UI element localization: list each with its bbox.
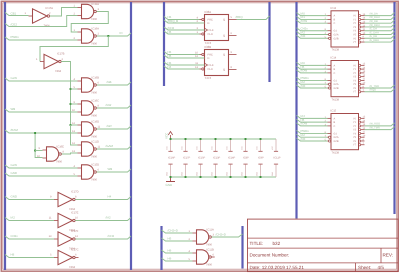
bus B (x=131 vertical)	[130, 2, 132, 270]
wire junction to IC16D pin 1	[71, 124, 78, 126]
svg-text:WB: WB	[108, 167, 113, 171]
bus H (bottom mid-right vertical)	[241, 226, 243, 269]
svg-text:REV:: REV:	[383, 253, 394, 258]
svg-text:/W_DBH: /W_DBH	[370, 24, 380, 27]
nand IC16D	[82, 122, 94, 136]
wire IA2 from bus E to IC15	[297, 134, 328, 137]
svg-text:/GAM: /GAM	[106, 144, 114, 148]
svg-text:/CH2+D: /CH2+D	[168, 228, 178, 232]
capacitor IC13P	[215, 139, 217, 151]
svg-text:IC8B: IC8B	[205, 45, 212, 49]
wire feedback into IC17B input	[39, 61, 41, 63]
inverter IC17F	[58, 232, 73, 246]
wire IC17F output to bus B	[75, 236, 131, 239]
svg-text:IC16A: IC16A	[92, 27, 100, 30]
svg-text:IC16E: IC16E	[57, 145, 65, 148]
svg-text:IC9P: IC9P	[258, 156, 264, 159]
svg-text:CLK: CLK	[209, 64, 214, 67]
svg-text:H5: H5	[168, 54, 172, 58]
wire IC17A output to IC15A pin 1	[50, 8, 78, 17]
wire IC13 Y7 to bus F	[365, 39, 395, 42]
wire IC13 Y1 to bus F	[365, 16, 395, 19]
wire junction to IC16E pin 9	[35, 150, 42, 152]
svg-text:D: D	[208, 57, 210, 60]
svg-text:C: C	[334, 72, 336, 75]
svg-text:/CE: /CE	[301, 84, 306, 88]
svg-text:Q: Q	[223, 54, 225, 57]
svg-text:7400: 7400	[91, 178, 97, 181]
wire H9 from bus G to IC11B pin 1	[162, 250, 193, 253]
svg-text:IC17E: IC17E	[71, 212, 79, 215]
nand IC11B	[197, 250, 209, 264]
wire H4 from bus C to IC8B CLR	[164, 66, 200, 69]
svg-text:4/5: 4/5	[378, 265, 385, 270]
svg-text:IC15A: IC15A	[92, 3, 100, 6]
wire CH2x from bus A to IC17F	[5, 236, 54, 239]
svg-text:IC8P: IC8P	[243, 156, 249, 159]
svg-text:IC16B: IC16B	[92, 76, 100, 79]
svg-text:7400: 7400	[91, 18, 97, 21]
flip-flop IC8A (7474)	[205, 15, 229, 41]
svg-text:GND: GND	[11, 194, 17, 198]
svg-text:IC11D: IC11D	[92, 140, 99, 143]
wire /IOW from bus E to IC13	[297, 20, 328, 23]
svg-text:GND: GND	[211, 171, 214, 176]
wire IC8A Q to bus D	[237, 16, 270, 20]
svg-text:GND: GND	[181, 171, 184, 176]
wire IC13 Y5 to bus F	[365, 32, 395, 35]
wire GND from bus A to IC15D pin 2	[5, 173, 78, 176]
svg-text:7400: 7400	[91, 114, 97, 117]
svg-text:IC16C: IC16C	[92, 99, 100, 102]
svg-text:IC13P: IC13P	[213, 156, 220, 159]
svg-text:D: D	[208, 22, 210, 25]
svg-text:IC17C: IC17C	[71, 249, 79, 252]
svg-text:H9: H9	[168, 248, 172, 252]
svg-text:G2B: G2B	[334, 140, 339, 143]
svg-text:/CE: /CE	[301, 137, 306, 141]
svg-text:/GR: /GR	[107, 124, 112, 128]
inverter IC17A	[33, 9, 48, 23]
svg-text:7400: 7400	[91, 91, 97, 94]
capacitor IC15P	[200, 139, 202, 151]
wire CB1 from bus A to IC17A input	[5, 13, 29, 16]
wire IC16E output to IC11D pin 13	[62, 153, 78, 154]
svg-text:CH2x: CH2x	[11, 234, 19, 238]
bus G (bottom mid-left vertical)	[160, 226, 162, 270]
VCC symbol	[168, 132, 172, 140]
wire IC11A output to bus H	[212, 234, 243, 237]
svg-text:74138: 74138	[332, 151, 340, 154]
wire IA0 from bus E to IC14	[297, 62, 328, 65]
inverter IC17D	[58, 192, 73, 206]
wire IC15 Y3 to bus F	[365, 127, 395, 130]
svg-text:H9: H9	[168, 256, 172, 260]
svg-text:G2B: G2B	[334, 87, 339, 90]
flip-flop IC8B (7474)	[205, 50, 229, 76]
svg-text:/CH2: /CH2	[108, 234, 115, 238]
svg-text:G2A: G2A	[334, 83, 339, 86]
svg-text:G2A: G2A	[334, 34, 339, 37]
bus A (left vertical)	[4, 2, 6, 270]
svg-text:CLR: CLR	[208, 68, 213, 71]
svg-text:74138: 74138	[332, 98, 340, 101]
svg-text:C: C	[334, 125, 336, 128]
wire IC15D output to bus B	[97, 169, 131, 172]
decoder IC13 (74138)	[331, 11, 359, 47]
wire /RAM from bus A to IC16D pin 2	[5, 130, 78, 133]
svg-text:/E_DB: /E_DB	[370, 35, 378, 38]
svg-text:Q: Q	[223, 19, 225, 22]
svg-text:TITLE:: TITLE:	[250, 241, 264, 246]
svg-text:C: C	[334, 22, 336, 25]
svg-text:IC13: IC13	[331, 7, 337, 10]
ground symbol GND	[166, 177, 175, 182]
svg-text:GND: GND	[196, 171, 199, 176]
svg-text:IC16D: IC16D	[92, 120, 100, 123]
bus E (x=296.5 vertical)	[295, 2, 297, 219]
svg-text:/IA2: /IA2	[106, 215, 112, 219]
wire H6 from bus C to IC8B PRE	[164, 52, 200, 55]
svg-text:WB: WB	[11, 107, 16, 111]
wire CH2x from bus E to IC13	[297, 28, 328, 31]
wire IC17B output down the NAND column	[61, 62, 70, 126]
wire H8 from bus A to IC17C	[5, 255, 54, 258]
svg-text:/RQB: /RQB	[370, 89, 377, 92]
inverter IC17B	[44, 54, 59, 68]
junction IC17B line to IC16D pin 1	[70, 124, 72, 126]
svg-text:GND: GND	[256, 171, 259, 176]
nand IC15D	[82, 165, 94, 179]
wire IC14 Y6 to bus F	[365, 85, 395, 88]
wire IC16A output to bus B	[97, 33, 131, 36]
svg-text:GND: GND	[166, 183, 174, 187]
wire PWDn from bus E to IC14	[297, 77, 328, 80]
svg-text:/RAM: /RAM	[11, 128, 19, 132]
svg-text:IA2: IA2	[11, 215, 16, 219]
wire /IOW from bus E to IC14	[297, 70, 328, 73]
svg-text:IC8A: IC8A	[205, 10, 212, 14]
wire IA2 from bus A to IC17E	[5, 218, 54, 221]
svg-text:/E_DA: /E_DA	[370, 28, 378, 31]
capacitor IC8P	[245, 139, 247, 151]
svg-text:/CE2: /CE2	[11, 22, 18, 26]
wire IC14 Y7 to bus F	[365, 89, 395, 92]
svg-text:G2A: G2A	[334, 136, 339, 139]
svg-text:7400: 7400	[91, 42, 97, 45]
svg-text:/CH2+D: /CH2+D	[216, 232, 226, 236]
svg-text:/W_ROG: /W_ROG	[370, 123, 381, 126]
wire H5 from bus G to IC11A pin 2	[162, 238, 193, 241]
capacitor IC17P	[185, 139, 187, 151]
nand IC11A	[197, 230, 209, 244]
svg-text:7404: 7404	[55, 70, 61, 73]
svg-text:/GB: /GB	[107, 80, 112, 84]
svg-text:IC15D: IC15D	[92, 163, 100, 166]
capacitor IC14P	[230, 139, 232, 151]
wire IC15A output loop to IC16A pin 1	[71, 12, 108, 33]
svg-text:/IOW: /IOW	[301, 19, 308, 23]
svg-text:/IOW: /IOW	[301, 69, 308, 73]
svg-text:IC11A: IC11A	[207, 228, 214, 231]
svg-text:/W_DAH: /W_DAH	[370, 16, 380, 19]
svg-text:Date: 12.03.2019 17.55.21: Date: 12.03.2019 17.55.21	[250, 265, 305, 270]
wire /CE from bus E to IC14	[297, 85, 328, 88]
capacitor IC16P	[170, 139, 172, 151]
svg-text:Document Number:: Document Number:	[250, 253, 290, 258]
svg-text:GND: GND	[11, 171, 17, 175]
svg-text:/CE: /CE	[301, 34, 306, 38]
capacitor IC9P	[260, 139, 262, 151]
svg-text:GND: GND	[241, 171, 244, 176]
wire H6b from bus C to IC8B CLK	[164, 62, 205, 65]
wire IC16A output branch to IC17B input	[40, 36, 108, 62]
svg-text:/IOW: /IOW	[301, 122, 308, 126]
svg-text:H5: H5	[168, 236, 172, 240]
capacitor IC11P	[275, 139, 277, 151]
decoder IC15 (74138)	[331, 114, 359, 150]
svg-text:/E_DAH: /E_DAH	[370, 31, 379, 34]
nand IC16A	[82, 29, 94, 43]
svg-text:IC17B: IC17B	[57, 53, 65, 56]
svg-text:/E_DBH: /E_DBH	[370, 39, 379, 42]
wire WB from bus A to IC16C pin 2	[5, 109, 78, 112]
decoder IC14 (74138)	[331, 61, 359, 97]
wire /REQ_B from bus C to IC8A D	[164, 20, 205, 23]
svg-text:GND: GND	[166, 171, 169, 176]
svg-text:7400: 7400	[206, 263, 212, 266]
svg-text:7400: 7400	[91, 155, 97, 158]
wire /CE from bus E to IC13	[297, 35, 328, 38]
svg-text:b32: b32	[273, 241, 281, 246]
wire IC15 Y2 to bus F	[365, 123, 395, 126]
svg-text:IC11P: IC11P	[274, 156, 281, 159]
svg-text:/W_TMR: /W_TMR	[370, 126, 380, 129]
svg-text:7400: 7400	[206, 243, 212, 246]
wire IC16C output to bus B	[97, 105, 131, 108]
wire H6 from bus C to IC8A PRE	[164, 17, 200, 20]
svg-text:74138: 74138	[332, 49, 340, 52]
wire /CE2 from bus A to IC15A pin 2	[5, 16, 78, 27]
svg-text:7404: 7404	[69, 266, 75, 269]
wire IC16D output to bus B	[97, 126, 131, 129]
wire IA1 from bus E to IC13	[297, 16, 328, 19]
wire to IC17B pin	[39, 61, 41, 63]
wire /CH2 from bus C to IC8A CLK	[164, 27, 205, 30]
svg-text:H5: H5	[168, 30, 172, 34]
wire H5 from bus C to IC8B D	[164, 55, 205, 58]
wire IA2 from bus E to IC14	[297, 81, 328, 84]
bus D (x=269.5 vertical)	[268, 2, 270, 82]
wire /CE from bus E to IC15	[297, 138, 328, 141]
svg-text:Q: Q	[223, 35, 225, 38]
wire H5 from bus E to IC14	[297, 66, 328, 69]
wire IC17D output to bus B	[75, 197, 131, 200]
wire IC13 Y2 to bus F	[365, 20, 395, 23]
svg-text:/W_DA: /W_DA	[370, 12, 378, 15]
svg-text:/REQ_B: /REQ_B	[168, 19, 179, 23]
wire IA2 from bus E to IC13	[297, 32, 328, 35]
svg-text:/GW: /GW	[106, 103, 112, 107]
junction on IC16A output	[107, 35, 109, 37]
svg-text:IC11B: IC11B	[207, 248, 214, 251]
svg-text:GND: GND	[271, 171, 274, 176]
nand IC16B	[82, 78, 94, 92]
wire /IOW from bus E to IC15	[297, 123, 328, 126]
svg-text:H8: H8	[11, 252, 15, 256]
svg-text:CLR: CLR	[208, 33, 213, 36]
wire IC13 Y4 to bus F	[365, 28, 395, 31]
svg-text:H4: H4	[108, 194, 112, 198]
inverter IC17C	[58, 250, 73, 264]
svg-text:7400: 7400	[56, 160, 62, 163]
wire IC13 Y6 to bus F	[365, 35, 395, 38]
svg-text:CB1: CB1	[11, 11, 17, 15]
svg-text:/REQ: /REQ	[236, 15, 244, 19]
svg-text:PWDn: PWDn	[11, 35, 20, 39]
wire IC17B line to IC11D pin 12	[71, 125, 78, 145]
wire IC17E output to bus B	[75, 218, 131, 221]
wire GND rail	[171, 176, 277, 178]
wire H9 from bus G to IC11B pin 2	[162, 258, 193, 261]
wire IC13 Y3 to bus F	[365, 24, 395, 27]
junction IC17B line to IC16B pin 2	[70, 88, 72, 90]
svg-text:IC17P: IC17P	[183, 156, 190, 159]
wire PWDn from bus A to IC16A pin 2	[5, 37, 78, 40]
svg-text:GxW: GxW	[11, 76, 18, 80]
junction on /RAM wire	[34, 132, 36, 134]
nand IC15A	[82, 4, 94, 18]
svg-text:G2B: G2B	[334, 37, 339, 40]
wire VCC rail	[171, 138, 277, 140]
svg-text:IC17D: IC17D	[71, 191, 79, 194]
svg-text:VCC: VCC	[165, 132, 169, 139]
wire junction to IC16C pin 1	[71, 103, 78, 105]
wire IC16B output to bus B	[97, 82, 131, 85]
junction at IC16E pin 9	[34, 150, 36, 152]
wire junction to IC16B pin 2	[71, 88, 78, 90]
svg-text:7474: 7474	[205, 76, 212, 80]
svg-text:/W_DB: /W_DB	[370, 20, 378, 23]
wire /CH2+D from bus G to IC11A pin 1	[162, 230, 193, 233]
svg-text:H4: H4	[168, 65, 172, 69]
bus F (right vertical)	[393, 2, 395, 214]
svg-text:7400: 7400	[91, 135, 97, 138]
title block	[248, 219, 399, 272]
svg-text:IC16P: IC16P	[168, 156, 175, 159]
wire H5 from bus C to IC8A CLR	[164, 31, 200, 34]
svg-text:IC15P: IC15P	[198, 156, 205, 159]
wire IC11D output to bus B	[97, 146, 131, 149]
svg-text:GxW: GxW	[11, 163, 18, 167]
wire GxW from bus A to IC15D pin 1	[5, 165, 78, 168]
junction IC17B line to IC16C pin 1	[70, 103, 72, 105]
wire segment into IC17B	[39, 61, 41, 63]
svg-text:Q: Q	[223, 69, 225, 72]
svg-text:Sheet:: Sheet:	[358, 265, 371, 270]
svg-text:IC17A: IC17A	[46, 7, 54, 10]
nand IC16E	[47, 147, 59, 161]
inverter IC17E	[58, 213, 73, 227]
wire GxW from bus A to IC16B pin 1	[5, 78, 78, 81]
svg-text:GND: GND	[226, 171, 229, 176]
nand IC11D	[82, 142, 94, 156]
svg-text:IC14: IC14	[331, 57, 337, 60]
wire IA0 from bus E to IC13	[297, 13, 328, 16]
wire GND from bus A to IC17D	[5, 197, 54, 200]
wire /RAM branch down to IC16E	[35, 133, 42, 158]
svg-text:CLK: CLK	[209, 29, 214, 32]
wire IC13 Y0 to bus F	[365, 13, 395, 16]
svg-text:/R_TMR: /R_TMR	[370, 85, 380, 88]
svg-text:IC15: IC15	[331, 110, 337, 113]
svg-text:IC14P: IC14P	[228, 156, 235, 159]
bus C (x=164 vertical)	[163, 2, 165, 86]
wire PWDn from bus E to IC15	[297, 130, 328, 133]
svg-text:IC17F: IC17F	[71, 230, 79, 233]
wire IA4 from bus E to IC15	[297, 115, 328, 118]
wire H5 from bus E to IC15	[297, 119, 328, 122]
nand IC16C	[82, 101, 94, 115]
